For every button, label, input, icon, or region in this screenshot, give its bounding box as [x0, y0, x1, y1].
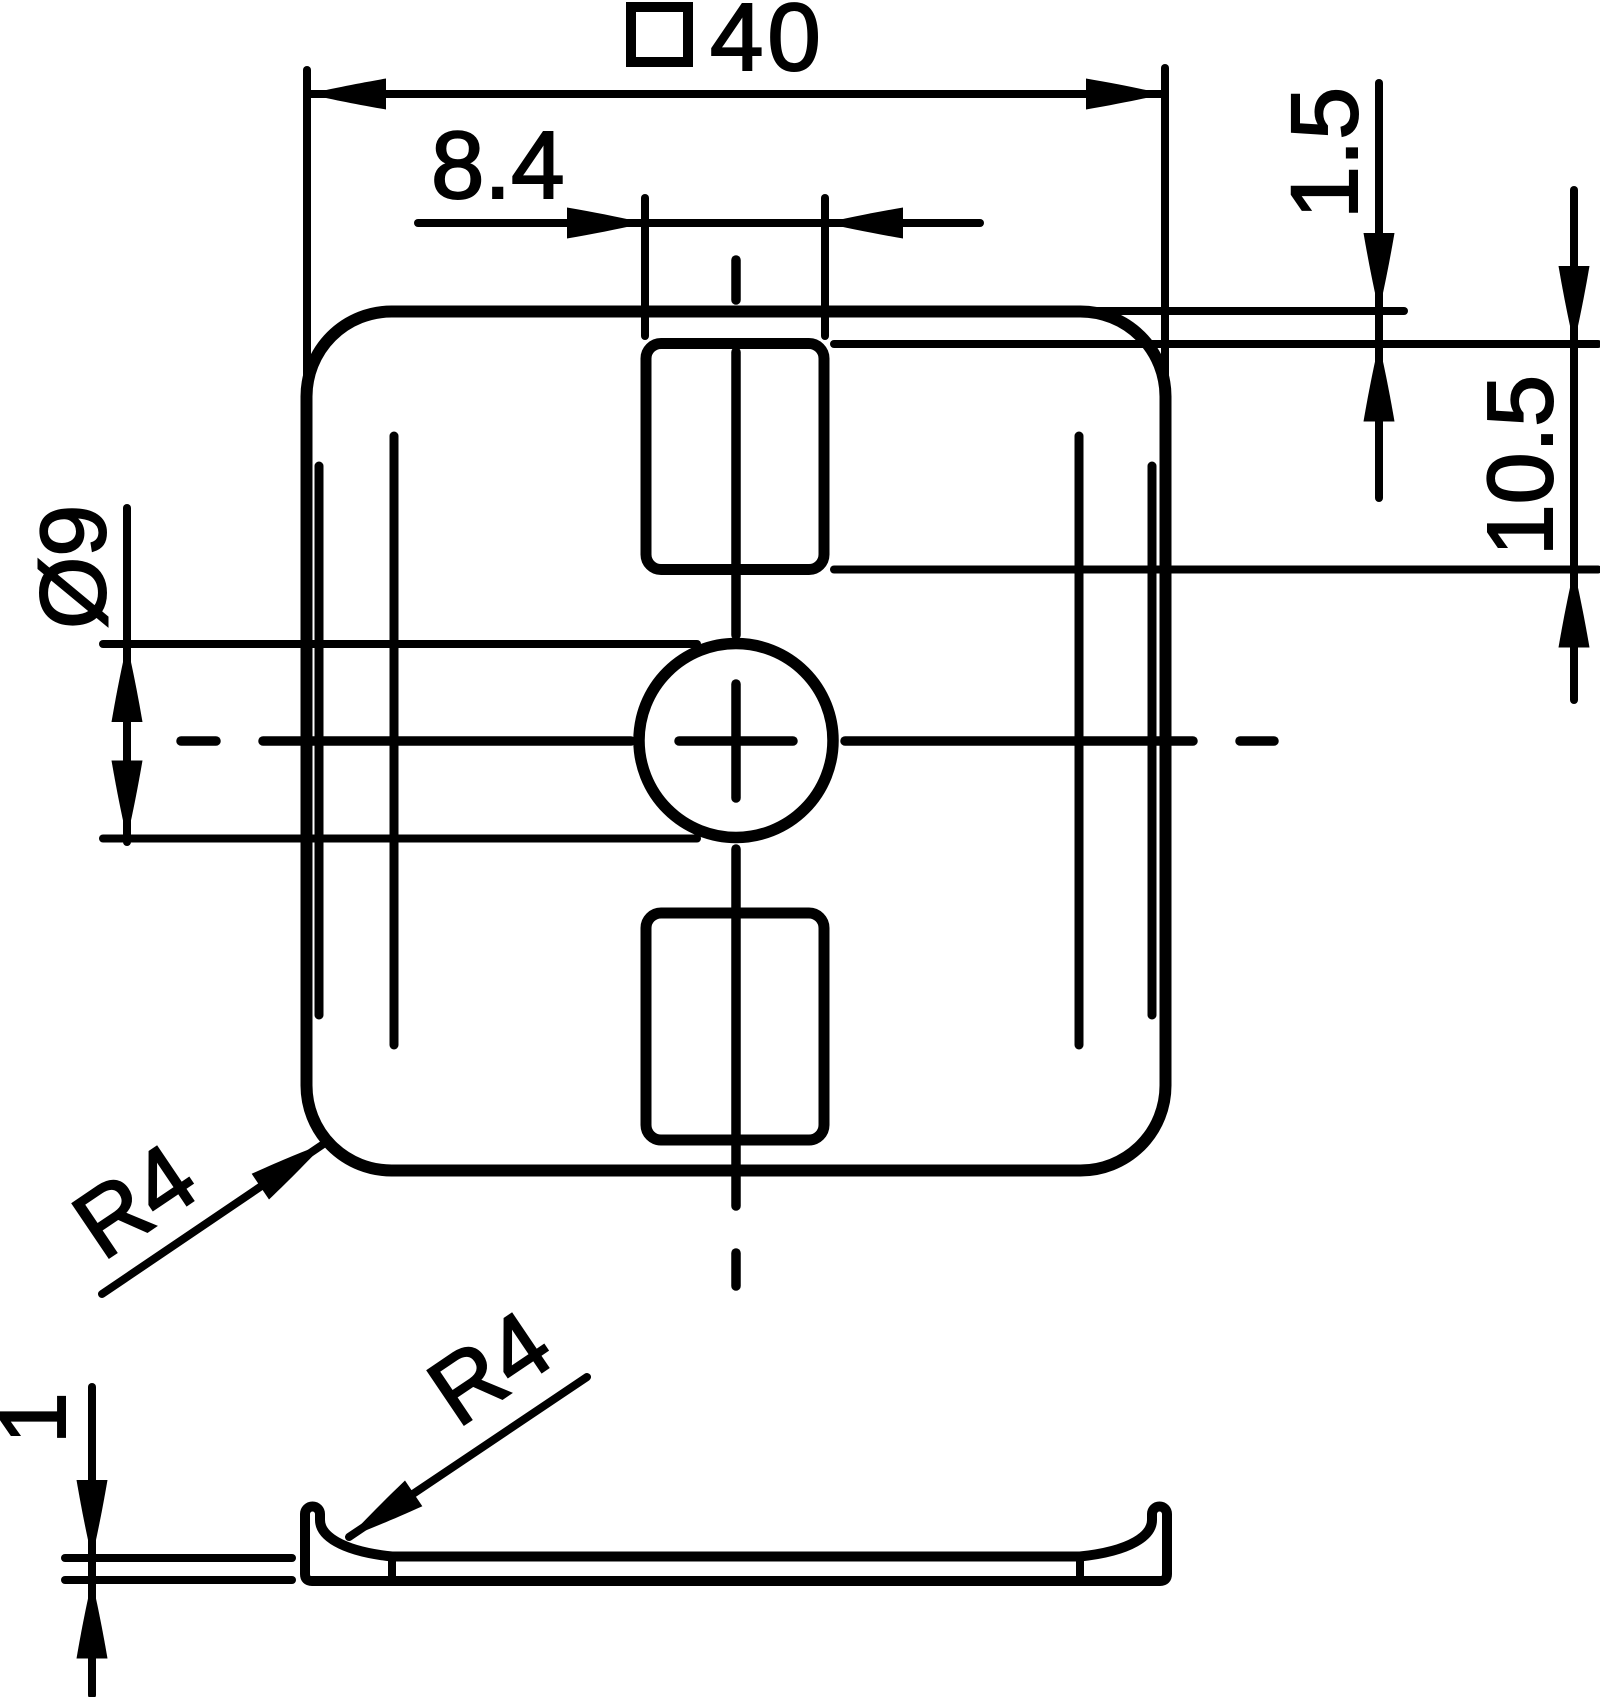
- vertical centerline: [731, 260, 741, 1286]
- dim 1: arrow lower (pointing up): [77, 1581, 108, 1659]
- dim Ø9: extension lines: [103, 640, 697, 648]
- dim 10.5: arrow upper (pointing down): [1559, 266, 1590, 344]
- dim 1.5: arrow upper (pointing down): [1364, 233, 1395, 311]
- plate outline (top view, 40x40 R4): [307, 312, 1166, 1171]
- dim 8.4: arrow right (pointing left): [825, 208, 903, 239]
- dim 1.5: top edge extension line: [1090, 307, 1404, 315]
- crosshair horizontal: [679, 736, 793, 746]
- dim 8.4: arrow left (pointing right): [567, 208, 645, 239]
- side view bend tangent tick left: [388, 1559, 396, 1579]
- inner edge line left near: [315, 466, 324, 1015]
- dim 1: arrow upper (pointing down): [77, 1480, 108, 1558]
- dim Ø9: arrow upper (pointing up, inside): [112, 644, 143, 722]
- dim 40: square symbol: [631, 7, 688, 62]
- dim 8.4: dimension line: [418, 219, 980, 227]
- dim 10.5: dimension line: [1570, 190, 1578, 700]
- dim 40: dimension line: [307, 90, 1165, 98]
- inner edge line left far: [390, 436, 399, 1045]
- dim 10.5: slot-top extension line: [834, 340, 1598, 348]
- svg-text:1.5: 1.5: [1272, 87, 1378, 219]
- dim Ø9: dimension line: [123, 508, 131, 842]
- svg-text:10.5: 10.5: [1468, 375, 1572, 556]
- svg-text:Ø9: Ø9: [21, 505, 125, 629]
- side view outline: [305, 1507, 1167, 1581]
- dim 10.5: slot-bottom extension line: [834, 566, 1598, 574]
- top slot: [646, 344, 824, 570]
- R4 leader upper-left: line: [102, 1143, 325, 1294]
- dim 1.5: dimension line: [1375, 83, 1383, 498]
- side view bend tangent tick right: [1076, 1559, 1084, 1579]
- inner edge line right near: [1148, 466, 1157, 1015]
- dim 1: dimension line: [88, 1387, 96, 1695]
- dim 1.5: arrow lower (pointing up): [1364, 344, 1395, 422]
- center hole Ø9: [639, 644, 833, 838]
- dim 10.5: arrow lower (pointing up): [1559, 570, 1590, 648]
- svg-text:8.4: 8.4: [431, 112, 564, 219]
- bottom slot: [646, 913, 824, 1140]
- dim 40: arrow right: [1086, 79, 1164, 110]
- crosshair vertical: [731, 684, 741, 798]
- R4 leader lower: arrow: [340, 1481, 422, 1550]
- R4 leader upper-left: arrow: [252, 1130, 334, 1199]
- inner edge line right far: [1075, 436, 1084, 1045]
- dim 1: extension lines: [65, 1554, 292, 1562]
- dim 8.4: extension lines: [641, 198, 649, 336]
- svg-text:1: 1: [0, 1392, 85, 1444]
- dim 40: arrow left: [308, 79, 386, 110]
- R4 leader lower: line: [349, 1377, 587, 1537]
- dim Ø9: arrow lower (pointing down, inside): [112, 761, 143, 839]
- dim 40: extension lines: [303, 70, 311, 400]
- svg-text:40: 40: [710, 0, 825, 91]
- horizontal centerline: [181, 736, 1274, 746]
